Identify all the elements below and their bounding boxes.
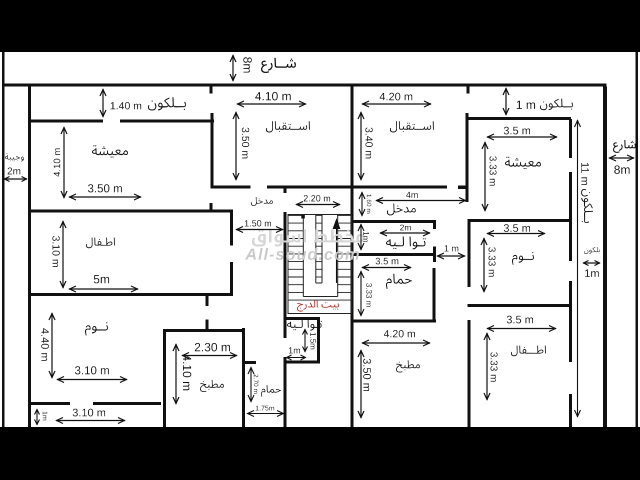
wall stub below corridor wall at x284 [284,189,287,194]
corridor 1m dim [437,245,465,259]
kids-left label (atfal) [86,238,115,249]
wall corridor west x433 [433,268,436,322]
living-left label (maisha) [92,145,128,157]
strip 1m dim [35,409,48,425]
entrance 2.20m dim [296,195,340,207]
wall corridor top y186 west segment [211,186,251,189]
wall tick below kids-left wall [206,296,209,306]
balcony top-left label [148,97,186,110]
lot boundary left [2,52,5,427]
wall reception-left west wall [211,113,214,189]
wall building right outer [603,87,607,428]
balcony right 11m dim [575,120,589,417]
entrance 4m dim [376,192,466,204]
wall corridor east x468 seg2 [468,320,471,427]
street top 8m dim [230,55,252,81]
staircase start dot [301,215,305,219]
living-right label (maisha) [505,157,541,169]
wall kids-left bottom y293 [28,293,233,296]
staircase treads and shaft [288,215,352,314]
entrance 1.60m dim [359,192,371,216]
bed-right 3.33m dim [481,238,496,292]
wall bed-left bottom east segment [93,402,161,405]
kids-right 3.5m dim [487,316,556,332]
bath-mid label (hamam) [386,274,412,289]
kids-left 5m dim [69,275,138,292]
wall tick above kids-left wall at x210 [210,203,213,210]
watermark arabic line [252,229,365,246]
kids-right label (atfal) [511,346,546,357]
reception-right label (istqbal) [390,121,434,132]
staircase label bait al-daraj (red) [297,300,339,311]
lot boundary right [636,52,639,427]
toilet-bottom label (twalet) [287,319,322,330]
toilet-bottom 1m dim [286,347,306,360]
wall balcony top-left bottom edge, right of door [120,120,214,123]
bed-left label (noom) [85,322,108,335]
corridor 1.50m dim [236,220,283,232]
toilet-mid 1m dim [358,224,369,250]
balcony top-right 1m dim [503,88,535,115]
street right 8m dim [609,155,634,174]
kitchen-left label (matbakh) [200,380,224,392]
wall bath-bottom top west piece [243,361,256,364]
wall toilet-mid top y221 [351,220,437,223]
balcony right small label [584,247,600,254]
wall stair shaft west x284 lower [284,357,287,427]
wall toilet-bottom bottom edge [284,361,320,364]
wall kitchen-left east [242,328,245,427]
black letterbox bar bottom [0,427,640,480]
wall central spine x352 [351,87,354,428]
bed-right label (noom) [512,252,534,265]
wall kitchen-left west [163,330,166,427]
reception-left 4.10m dim [237,92,306,107]
kitchen-left 2.30m dim [182,343,237,359]
street label right (sharea) [613,140,636,153]
setback label wajiba [5,153,24,161]
wall living-right / bed-right divider y219 [468,219,572,222]
bath-mid 3.5m dim [362,258,411,271]
wall door stub before reception-right wall [458,186,468,190]
kids-left 3.10m dim [52,221,66,288]
bath-bottom label (hamam) [261,385,281,397]
toilet-mid 2m dim [380,225,430,236]
wall balcony right x571 seg4 [569,394,572,427]
wall toilet-bottom east edge [317,317,320,364]
wall balcony top-right bottom edge [466,117,572,120]
street label top (sharea) [261,58,296,73]
wall toilet-bottom top edge [284,317,321,320]
wall kids-left east seg1 [230,213,233,246]
bed-left 3.10m dim [57,366,127,382]
balcony top-right label [540,99,573,111]
toilet-mid label (twalet) [386,236,426,249]
wall stair shaft west x284 upper [284,212,287,338]
bath-bottom 1.75m dim [247,406,284,417]
wall door jamb x433 at y253 [433,247,436,263]
living-right 3.33m dim [482,142,497,211]
wall corridor east x468 seg1 [468,222,471,287]
bath-mid 3.33m dim [358,271,372,316]
reception-left 3.50m dim [233,112,249,180]
wall tick below top wall at x210 [210,87,213,94]
black letterbox bar top [0,0,640,52]
entrance label right (madkhal) [387,204,416,216]
wall kitchen-left top [163,329,245,332]
wall bath-mid bottom y320 [351,320,437,323]
wall reception-right west wall [466,113,469,202]
wall building top [2,84,607,87]
living-left 3.50m dim [69,184,141,200]
strip 3.10m dim [56,409,125,424]
living-right 3.5m dim [487,127,557,140]
balcony right 1m dim [583,261,600,277]
kitchen-right 4.20m dim [362,330,430,346]
kids-right 3.33m dim [484,333,498,400]
bath-bottom 2.70m dim [248,367,258,402]
balcony top-left 1.40m dim [100,89,141,117]
setback 2m dim [4,168,27,182]
wall balcony right x571 seg1 [569,119,572,158]
wall tick below top wall at x467 [467,87,470,94]
bed-left 4.40m dim [41,313,55,378]
wall left inner (setback) [28,87,31,428]
wall bed-left bottom west segment [28,402,70,405]
kitchen-left 4.10m dim [173,344,191,404]
kitchen-right 3.50m dim [358,350,371,418]
wall bed-right / kids-right divider y305 [468,304,572,307]
wall kids-left east seg2 [230,262,233,296]
staircase direction arrow [333,218,341,283]
toilet-bottom 1.5m dim [303,329,316,352]
wall balcony right x571 seg3 [569,281,572,362]
kitchen-right label (matbakh) [396,360,420,372]
balcony right rotated label [581,189,593,223]
bed-right 3.5m dim [487,224,545,236]
wall balcony right x571 seg2 [569,172,572,261]
reception-left label (istqbal) [266,121,310,132]
wall tick above kitchen-left [206,320,209,330]
watermark latin line [245,248,359,260]
entrance label left (madkhal) [251,197,273,206]
wall toilet-mid bottom y253 [351,253,436,256]
wall corner tick x433 at y221 [433,220,436,229]
wall corridor top y186 east segment [267,186,447,189]
wall kids-left top y210 [28,210,233,213]
reception-right 4.20m dim [362,93,431,107]
wall balcony top-left bottom edge, left of door [31,120,103,123]
reception-right 3.40m dim [358,112,373,180]
living-left 4.10m dim [54,127,67,198]
